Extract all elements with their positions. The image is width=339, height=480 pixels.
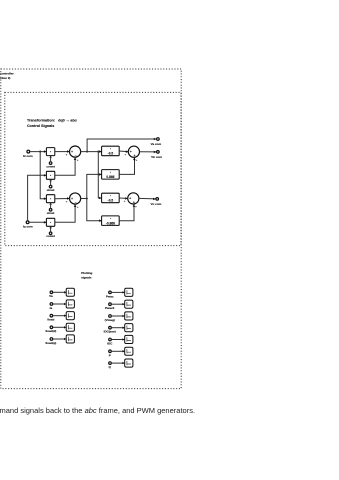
plot input port (Vmag) [109,315,112,318]
angle input port cos wt (4) [49,232,52,235]
wire Pwac2 to scope [111,303,124,305]
input port Iq com [26,221,29,224]
svg-text:-0.866: -0.866 [106,221,115,225]
svg-text:Ia: Ia [50,306,53,310]
wire Sum2 output [81,198,87,200]
wire Gain4 up into Sum4 bottom [119,204,134,220]
svg-text:Pwac: Pwac [106,294,114,298]
wire Sum1 down to Gain3 [98,152,101,198]
sum block Sum3 [128,146,139,157]
plot input port Va [50,291,53,294]
wire IDC(ave) to scope [111,327,124,329]
svg-text:mand signals back to the abc f: mand signals back to the abc frame, and … [0,406,195,415]
svg-text:Transformation: dq0 → abc: Transformation: dq0 → abc [27,118,77,122]
junction Sum2 output [86,197,88,199]
junction Va tap [86,151,88,153]
angle input port cos wt (1) [49,162,52,165]
sum block Sum1 [70,146,81,157]
svg-text:Id com: Id com [23,154,33,158]
sum block Sum4 [128,193,139,204]
svg-text:Iq com: Iq com [23,224,33,228]
scope block Iload [66,312,74,320]
wire angle port up to product [50,180,52,185]
scope block Va [66,288,74,296]
wire Product2 up into Sum1 bottom [55,158,75,176]
wire Iload(d) to scope [53,326,66,328]
wire Gain3 to Sum4 [119,197,128,199]
arrow into Product3 bottom [49,203,52,205]
svg-text:+: + [129,197,131,201]
wire angle port up to product [50,227,52,232]
junction on Id wire [39,151,41,153]
svg-text:Pwac2: Pwac2 [105,306,115,310]
wire Id branch down to Product3 [40,152,46,199]
wire Iq branch up to Product2 [28,175,47,221]
svg-text:Iload: Iload [47,318,54,322]
wire Id com to Product1 [30,151,47,153]
arrow into Product1 bottom [49,156,52,158]
wire Ia to scope [53,303,66,305]
svg-text:-0.5: -0.5 [108,199,114,203]
svg-text:−: − [75,201,77,205]
wire angle port up to product [50,203,52,208]
wire Product1 to Sum1 [55,151,70,153]
gain block Gain3 value -0.5 [102,193,120,203]
junction Gain3 tap [97,151,99,153]
plot input port Pwac2 [109,303,112,306]
wire Gain2 up into Sum3 bottom [119,158,134,175]
plot input port Pwac [109,291,112,294]
crossing blob where Gain2 feed crosses Gain3 feed [97,173,99,175]
gain block Gain2 value 0.866 [102,170,120,180]
svg-text:Iload(d): Iload(d) [45,329,56,333]
svg-text:-0.5: -0.5 [108,152,114,156]
svg-text:Control Signals: Control Signals [27,124,54,128]
svg-text:Vc com: Vc com [151,202,162,206]
svg-text:+: + [71,150,73,154]
svg-text:coswt: coswt [46,234,55,238]
plot input port Iload(d) [50,326,53,329]
wire Gain1 to Sum3 [119,150,128,153]
wire Iload to scope [53,315,66,317]
svg-text:−: − [75,154,77,158]
scope block Q [125,359,133,367]
wire Product4 up into Sum2 bottom [55,205,75,223]
svg-text:coswt: coswt [46,164,55,168]
output port Va com [157,138,160,141]
wire Product3 to Sum2 [55,198,70,200]
wire Iload(q) to scope [53,338,66,340]
product block Product1 [46,148,54,156]
svg-text:+: + [130,150,132,154]
wire Pwac to scope [111,291,124,293]
product block Product2 [46,171,54,179]
plot input port Q [109,362,112,365]
wire angle port up to product [50,156,52,162]
svg-text:Va com: Va com [151,142,162,146]
wire P to scope [111,350,124,352]
wire Va tap up and right to Va com port [87,139,156,152]
outer dashed box (controller subsystem) [1,69,181,389]
svg-text:Plotting: Plotting [81,271,92,275]
arrow into Product2 bottom [49,179,52,181]
scope block IDC(ave) [125,324,133,332]
scope block Pwac2 [125,300,133,308]
svg-text:sinwt: sinwt [47,211,55,215]
input port Id com [27,150,30,153]
scope block Pwac [125,288,133,296]
plot input port P [109,350,112,353]
wire Iq com to Product4 [29,221,46,223]
plot input port IDC [109,338,112,341]
sum block Sum2 [70,193,81,204]
wire IDC to scope [111,339,124,341]
scope block Iload(d) [66,323,74,331]
output port Vb com [157,151,160,154]
scope block P [125,347,133,355]
wire Sum2 up to Gain2 [87,174,102,198]
scope block (Vmag) [125,312,133,320]
wire (Vmag) to scope [111,315,124,317]
plot input port Iload [50,314,53,317]
svg-text:sinwt: sinwt [47,188,55,192]
wire Q to scope [111,362,124,364]
angle input port sin wt (2) [49,185,52,188]
inner dashed box (transformation section) [5,92,181,245]
wire Sum3 to Vb com port [140,151,157,153]
plot input port Iload(q) [50,338,53,341]
scope block Ia [66,300,74,308]
scope block IDC [125,335,133,343]
product block Product3 [46,195,54,203]
svg-text:+: + [71,197,73,201]
output port Vc com [156,198,159,201]
angle input port sin wt (3) [49,209,52,212]
svg-text:IDC(ave): IDC(ave) [104,330,116,334]
arrow into Product4 bottom [49,226,52,228]
product block Product4 [46,218,54,226]
svg-text:+: + [134,154,136,158]
wire Sum1 output to Gain1 [81,151,102,153]
svg-text:signals: signals [81,276,92,280]
svg-text:Iload(q): Iload(q) [45,341,56,345]
wire Va to scope [53,291,66,293]
svg-text:(Vmag): (Vmag) [105,318,115,322]
gain block Gain4 value -0.866 [102,216,120,226]
svg-text:Va: Va [49,294,53,298]
gain block Gain1 value -0.5 [102,146,120,156]
plot input port Ia [50,303,53,306]
svg-text:0.866: 0.866 [106,175,114,179]
svg-text:t controller: t controller [0,71,14,75]
scope block Iload(q) [66,335,74,343]
svg-text:Vb com: Vb com [151,155,162,159]
wire Sum4 to Vc com port [139,197,156,200]
svg-text:P: P [109,353,111,357]
plot input port IDC(ave) [109,326,112,329]
wire Sum2 down to Gain4 [87,199,102,221]
svg-text:IDC: IDC [107,342,113,346]
svg-text:ection 2): ection 2) [0,76,10,80]
